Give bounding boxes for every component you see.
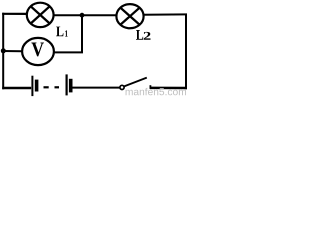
- wire: bottom-left segment to battery: [2, 87, 31, 90]
- wire: top-right segment L2 to right rail: [143, 13, 187, 15]
- watermark: [126, 88, 186, 95]
- battery cell 2 negative plate (short thick): [69, 79, 73, 93]
- lamp L1: [27, 3, 54, 27]
- switch S1 lever (open): [124, 78, 147, 87]
- wire: right rail vertical: [185, 14, 187, 90]
- switch S1 pivot: [120, 85, 124, 89]
- battery cell 2 positive plate (long): [65, 74, 67, 95]
- label L2: [136, 30, 151, 40]
- wire: bottom-right segment switch to right rail: [150, 87, 187, 90]
- wire: left rail vertical: [2, 13, 4, 89]
- label L1: [56, 27, 68, 37]
- wire: top middle segment L1 to L2: [53, 14, 117, 16]
- battery cell 1 negative plate (short thick): [35, 80, 39, 92]
- wire: voltmeter left lead: [2, 50, 22, 52]
- voltmeter U1: [22, 38, 54, 65]
- lamp L2: [116, 4, 143, 28]
- wire: dashed link between cells: [44, 86, 49, 88]
- wire: battery to switch: [72, 87, 120, 89]
- wire: top-left segment to lamp L1: [2, 13, 27, 15]
- node: junction dot left (voltmeter tap): [1, 48, 6, 53]
- node: junction dot top: [80, 13, 85, 18]
- wire: voltmeter right branch up to junction: [54, 15, 82, 52]
- battery cell 1 positive plate (long): [31, 76, 33, 96]
- switch S1 fixed contact tick: [149, 85, 151, 89]
